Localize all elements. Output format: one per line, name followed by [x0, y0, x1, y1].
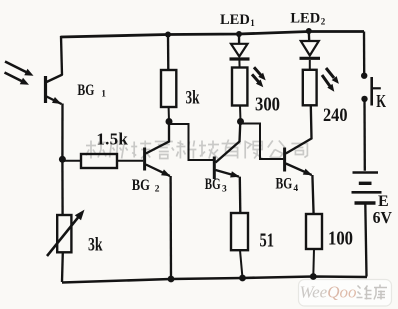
LED1 diode [230, 34, 250, 68]
wire BG4 emitter to 100 [312, 175, 313, 215]
resistor 240 [303, 70, 317, 106]
wire left rail to variable resistor [61, 161, 64, 216]
wire node to BG3 base (step) [169, 124, 213, 160]
LED2 diode [300, 31, 321, 70]
svg-text:WeeQoo: WeeQoo [300, 283, 357, 302]
wire variable resistor to bottom rail [61, 252, 64, 282]
svg-text:4: 4 [293, 184, 298, 194]
wire left rail upper [61, 36, 62, 75]
svg-text:2: 2 [155, 185, 160, 195]
wire top rail to 3k [167, 35, 170, 71]
wire BG2 emitter to bottom rail [169, 176, 172, 279]
light arrow 1 into BG1 [5, 62, 34, 76]
svg-text:300: 300 [255, 94, 280, 116]
transistor BG3 [214, 125, 240, 180]
node 300 / BG3 collector / BG4 base [237, 118, 244, 125]
svg-text:3: 3 [222, 185, 227, 195]
node top rail / LED1 [236, 31, 242, 37]
resistor 51 [231, 213, 248, 250]
svg-text:1: 1 [250, 18, 255, 28]
wire left rail middle (BG1 emitter to node) [61, 104, 63, 161]
wire BG3 emitter to 51 [239, 177, 242, 214]
svg-text:240: 240 [323, 105, 348, 126]
wire 100 to bottom rail [312, 249, 315, 277]
wire 51 to bottom rail [240, 250, 243, 278]
resistor 300 [232, 68, 247, 106]
node bottom rail / 100 [310, 273, 317, 280]
svg-text:6V: 6V [373, 208, 392, 227]
svg-text:51: 51 [260, 230, 275, 252]
variable resistor 3k [47, 210, 85, 256]
svg-text:LED: LED [290, 11, 320, 27]
resistor 1.5k [81, 154, 117, 168]
resistor 3k (BG2 collector load) [161, 70, 176, 107]
transistor BG4 [285, 105, 313, 175]
svg-text:BG: BG [205, 176, 221, 193]
svg-text:1: 1 [101, 90, 106, 100]
svg-text:BG: BG [77, 82, 94, 99]
battery E [352, 173, 382, 204]
switch K [361, 73, 381, 106]
LED2 emission arrow 1 [326, 68, 339, 84]
wire battery to bottom rail [365, 203, 366, 277]
light arrow 2 into BG1 [5, 73, 30, 85]
wire bottom rail [62, 277, 367, 283]
node 3k / BG2 collector / BG3 base [166, 118, 173, 125]
svg-text:K: K [376, 91, 386, 111]
LED1 emission arrow 1 [254, 67, 266, 80]
node top rail / 3k [165, 32, 171, 38]
LED2 emission arrow 2 [322, 75, 334, 92]
svg-text:100: 100 [328, 228, 353, 250]
svg-text:LED: LED [220, 12, 250, 28]
node: BG1 emitter / 1.5k / variable resistor junction [59, 156, 66, 163]
wire 1.5k to BG2 base [117, 160, 143, 162]
phototransistor BG1 [46, 75, 63, 105]
svg-text:3k: 3k [88, 235, 103, 256]
svg-text:2: 2 [321, 17, 326, 27]
node top rail / LED2 [306, 28, 312, 34]
wire top rail [61, 32, 365, 38]
svg-text:1.5k: 1.5k [96, 130, 128, 149]
wire 3k to node [168, 107, 170, 122]
wire top rail to switch [363, 32, 366, 74]
wire 300 to node [239, 106, 242, 122]
wire switch to battery [363, 99, 366, 171]
svg-text:BG: BG [276, 176, 293, 193]
svg-text:3k: 3k [186, 88, 200, 109]
wire node to 1.5k [62, 160, 81, 162]
wire node to BG4 base (step) [241, 124, 284, 160]
resistor 100 [306, 214, 322, 249]
svg-text:BG: BG [132, 177, 151, 194]
transistor BG2 [145, 125, 171, 177]
LED1 emission arrow 2 [252, 74, 263, 87]
node bottom rail / BG2 emitter [168, 276, 175, 283]
node bottom rail / 51 [239, 275, 246, 282]
